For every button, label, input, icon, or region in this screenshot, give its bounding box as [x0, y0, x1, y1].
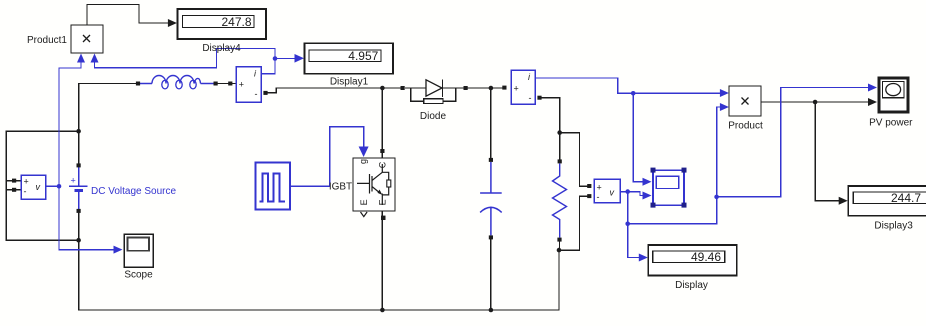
- port diode left: [401, 86, 405, 90]
- port capacitor bottom: [489, 235, 493, 239]
- wire IGBT emitter to ground bus: [381, 211, 383, 310]
- arrow into Product input 1: [720, 89, 729, 97]
- wire IGBT collector drop: [381, 88, 383, 158]
- svg-text:-: -: [24, 187, 27, 197]
- port V2 minus: [587, 194, 591, 198]
- wire v1 plus stub: [6, 180, 21, 182]
- wire v1 minus stub: [6, 189, 21, 191]
- wire branch to V2 minus: [559, 196, 587, 250]
- svg-text:IGBT: IGBT: [329, 182, 352, 193]
- wire bottom ground bus: [79, 250, 559, 310]
- port capacitor top: [489, 158, 493, 162]
- wire V2 signal down to Display: [628, 192, 639, 258]
- node V2 display branch junction: [625, 222, 630, 227]
- port IGBT collector: [380, 149, 384, 153]
- resistor R: [553, 164, 567, 238]
- node V1 output junction: [57, 184, 62, 189]
- diode D with snubber: [405, 79, 464, 122]
- arrow into Display: [639, 254, 648, 262]
- voltage measurement V1: [21, 175, 46, 199]
- svg-text:+: +: [514, 84, 519, 94]
- arrow into Scope1 input 1: [643, 178, 652, 186]
- pulse generator: [256, 163, 291, 210]
- svg-text:+: +: [24, 177, 29, 187]
- wire node to Scope1 input 2: [628, 192, 643, 196]
- port V1 minus: [12, 188, 16, 192]
- display Display: [648, 245, 737, 291]
- arrow into Product1 input 2: [91, 54, 99, 63]
- port I1 plus: [228, 82, 232, 86]
- port IGBT measurement marker: [361, 212, 368, 217]
- DC Voltage Source battery: [69, 167, 176, 211]
- svg-text:-: -: [597, 192, 600, 202]
- wire I1 output to node: [261, 59, 275, 74]
- wire junction down to Display3: [815, 102, 839, 201]
- wire left measurement loop: [6, 131, 78, 240]
- wire I1 minus to top bus and diode: [268, 88, 503, 93]
- display Display1: [305, 43, 394, 87]
- node IGBT ground junction: [380, 308, 385, 313]
- wire V2 signal to PV power input 1: [717, 88, 868, 197]
- arrow into PV power input 2: [868, 98, 877, 106]
- port IGBT emitter: [381, 216, 386, 220]
- voltage measurement V2: [594, 179, 620, 203]
- node resistor top branch junction: [557, 130, 562, 135]
- wire capacitor top drop: [490, 88, 492, 158]
- inductor L: [140, 76, 214, 89]
- arrow into Product input 2: [720, 103, 729, 111]
- svg-text:+: +: [239, 80, 244, 90]
- display Display4: [178, 9, 267, 54]
- svg-text:49.46: 49.46: [691, 250, 721, 264]
- wire node to Display1: [275, 58, 295, 60]
- current measurement I2: [511, 70, 535, 104]
- port V1 plus: [12, 179, 16, 183]
- svg-text:Display3: Display3: [874, 221, 913, 232]
- svg-text:4.957: 4.957: [348, 49, 378, 63]
- arrow into Display3: [839, 197, 848, 205]
- wire left vertical battery branch: [78, 84, 80, 311]
- port V2 plus: [587, 184, 591, 188]
- scope Scope: [124, 234, 153, 281]
- svg-text:Display4: Display4: [202, 43, 241, 54]
- svg-text:247.8: 247.8: [221, 15, 251, 29]
- port battery bottom: [77, 209, 81, 213]
- node capacitor ground junction: [489, 308, 494, 313]
- wire V1 output to node: [46, 185, 60, 187]
- wire branch to V2 plus: [560, 133, 588, 187]
- port battery top: [77, 163, 81, 167]
- port I2 minus: [537, 96, 541, 100]
- node IGBT collector junction: [380, 86, 385, 91]
- wire I2 signal down to Scope1 input 1: [633, 93, 643, 181]
- scope Scope1 selected: [651, 168, 687, 208]
- scope PV power: [869, 78, 913, 129]
- wire V2 output to node: [620, 191, 628, 193]
- svg-text:Product1: Product1: [27, 35, 67, 46]
- port I2 plus: [502, 86, 506, 90]
- wire Product output to PV power: [761, 101, 868, 103]
- svg-text:Display: Display: [675, 280, 708, 291]
- svg-text:Display1: Display1: [330, 77, 369, 88]
- display Display3: [848, 186, 926, 232]
- transistor IGBT: [329, 158, 395, 211]
- wire V1 signal down to Scope: [59, 186, 114, 249]
- arrow into Display1: [295, 54, 305, 63]
- product block Product: [728, 86, 763, 132]
- node V2 output junction: [625, 189, 630, 194]
- wire resistor bottom junction: [559, 242, 561, 251]
- arrow into Scope1 input 2: [643, 192, 652, 200]
- svg-text:Scope: Scope: [124, 270, 153, 281]
- arrow into Scope: [114, 246, 123, 254]
- arrow into IGBT gate: [359, 147, 369, 158]
- wire capacitor bottom to ground bus: [490, 239, 492, 310]
- node capacitor top junction: [489, 86, 494, 91]
- node I2 signal junction: [631, 91, 636, 96]
- svg-text:Diode: Diode: [420, 111, 447, 122]
- svg-text:v: v: [610, 188, 615, 198]
- svg-text:+: +: [71, 176, 76, 186]
- wire Pulse Generator to IGBT gate: [290, 127, 364, 187]
- node Product output junction: [813, 100, 818, 105]
- node battery plus junction: [76, 129, 81, 134]
- arrow into Display4: [168, 19, 177, 27]
- node PV branch junction: [714, 195, 719, 200]
- wire I1 signal to Product1 input 2: [95, 49, 276, 68]
- capacitor C: [480, 162, 502, 235]
- node resistor bottom junction: [557, 248, 562, 253]
- arrow into PV power input 1: [868, 84, 877, 92]
- product block Product1: [27, 25, 103, 53]
- port inductor right: [214, 82, 218, 86]
- svg-text:-: -: [255, 89, 258, 99]
- node I1 output junction: [273, 56, 278, 61]
- wire I2 output toward Product: [535, 78, 720, 93]
- port diode right: [464, 86, 468, 90]
- svg-text:PV power: PV power: [869, 118, 913, 129]
- svg-text:-: -: [529, 93, 532, 103]
- wire Product1 output to Display4: [87, 5, 168, 26]
- node battery minus junction: [76, 238, 81, 243]
- svg-text:DC Voltage Source: DC Voltage Source: [91, 186, 176, 197]
- port I1 minus: [263, 91, 267, 95]
- wire I2 minus to resistor top: [542, 98, 560, 160]
- arrow into Product1 input 1: [77, 54, 85, 63]
- svg-text:Product: Product: [728, 121, 763, 132]
- svg-text:v: v: [36, 182, 41, 192]
- svg-text:E: E: [359, 199, 369, 205]
- port inductor left: [136, 82, 140, 86]
- svg-text:g: g: [358, 159, 368, 164]
- wire V1 signal up to Product1 input 1: [59, 61, 81, 186]
- wire V2 signal to Product input 2: [628, 107, 720, 224]
- wire inductor left feed: [79, 83, 136, 85]
- port resistor bottom: [557, 238, 561, 242]
- svg-text:244.7: 244.7: [891, 191, 921, 205]
- current measurement I1: [236, 67, 261, 103]
- port resistor top: [558, 159, 562, 163]
- wire inductor to current sensor I1: [218, 83, 236, 85]
